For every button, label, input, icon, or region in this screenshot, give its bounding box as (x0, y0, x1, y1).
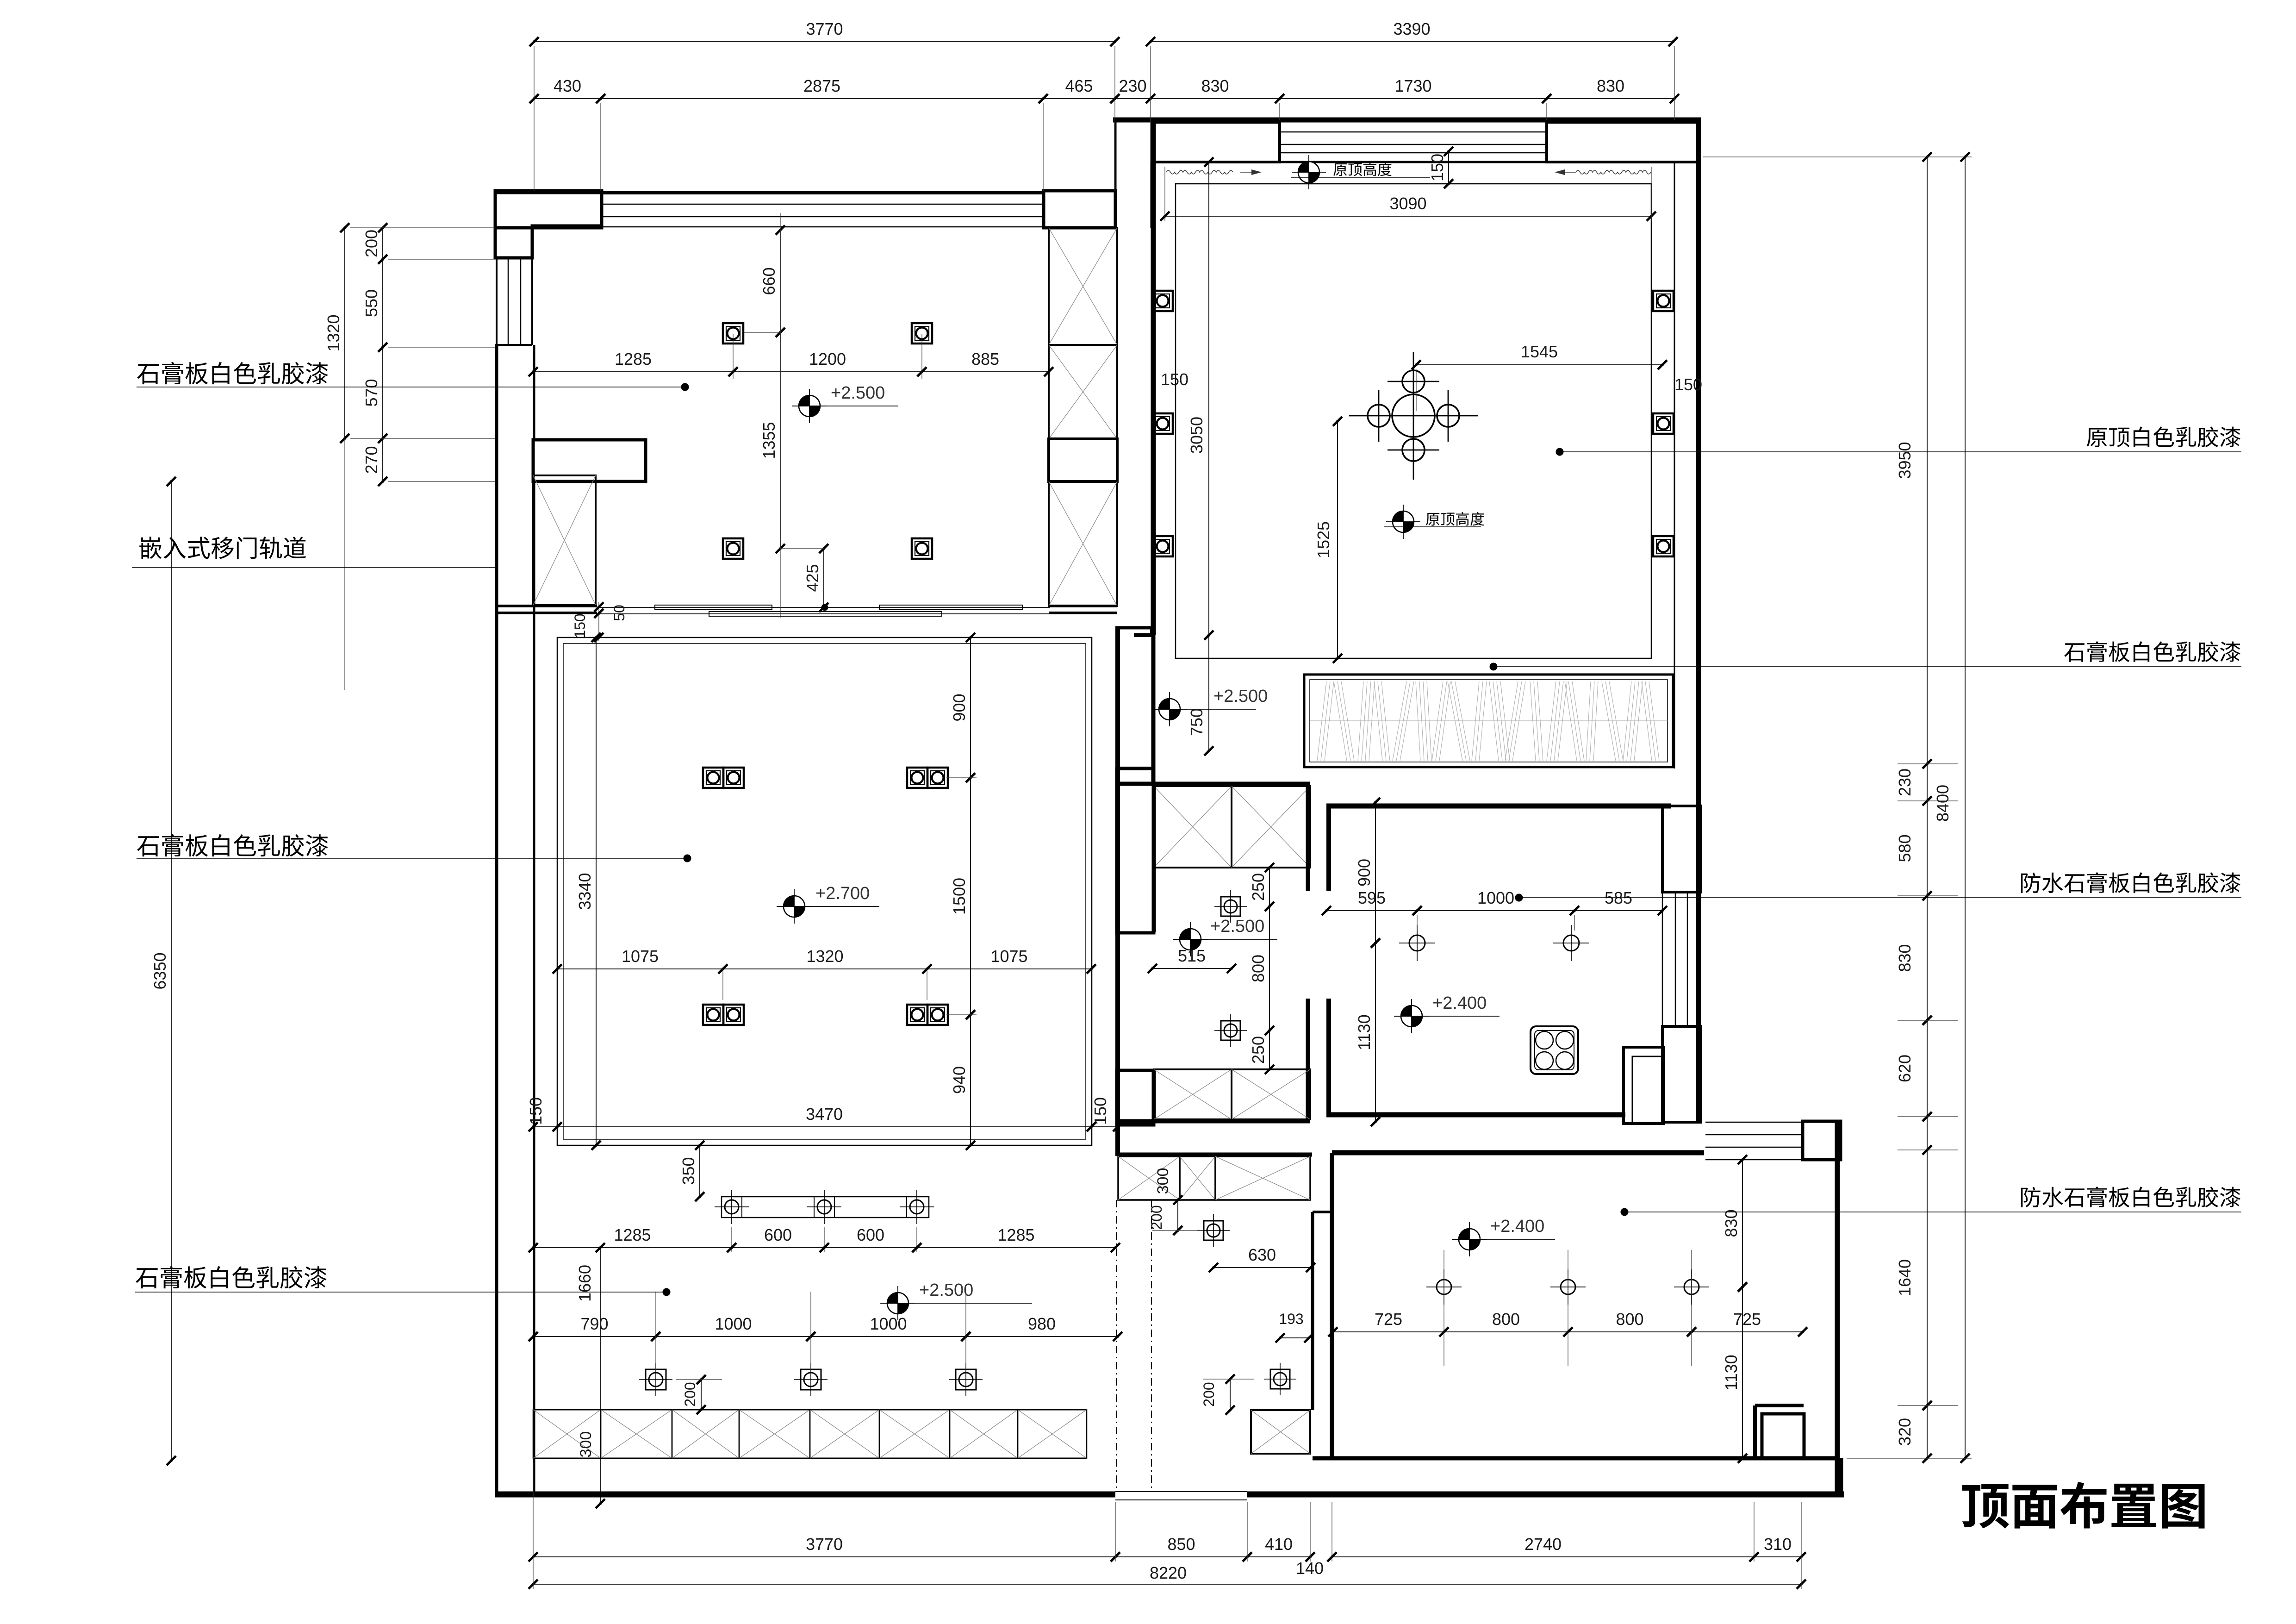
sliding door track baseline lower (597, 613, 1050, 614)
balcony lamp 3 (1684, 1280, 1699, 1294)
dimension 1545 chandelier (1416, 364, 1662, 365)
living/bath separating wall (1115, 628, 1120, 1156)
kitchen top wall (1326, 804, 1671, 809)
elevation +2.400 balcony (1459, 1229, 1480, 1250)
downlight top-right room right wall 2 (1653, 413, 1674, 434)
dimension 1000 bottom lights b (811, 1336, 966, 1337)
balcony lights extension (1444, 1250, 1444, 1366)
svg-text:+2.700: +2.700 (815, 884, 870, 903)
dimension 465 top row2 (1043, 98, 1115, 99)
double downlight living top-right (907, 768, 927, 788)
svg-text:+2.500: +2.500 (831, 383, 885, 403)
svg-text:515: 515 (1178, 946, 1206, 965)
dimension 900 kitchen (1375, 802, 1376, 943)
dimension 600 light bar a (732, 1247, 824, 1248)
svg-text:430: 430 (554, 76, 581, 95)
left outer wall outer line (495, 345, 498, 1497)
svg-text:50: 50 (611, 605, 628, 621)
bottom-right outer wall corner (1838, 1458, 1843, 1494)
dimension 1000 bottom lights a (656, 1336, 811, 1337)
dimension 3770 top row1 (534, 41, 1115, 42)
downlight top-right room left wall 1 (1152, 291, 1173, 311)
wall block right end of bedroom top wall (1044, 191, 1115, 228)
dimension 940 living (970, 1015, 971, 1145)
svg-text:900: 900 (1355, 859, 1374, 887)
svg-text:630: 630 (1248, 1245, 1276, 1264)
dimension 2875 top row2 (601, 98, 1043, 99)
label waterproof gypsum board white latex paint (kitchen) (2021, 873, 2041, 893)
dimension 570 left chain (382, 347, 383, 438)
wall block right of balcony window (1803, 1121, 1841, 1160)
interior wall stub (peninsula) on left wall (533, 440, 646, 481)
wardrobe hatch box 2 right of bedroom (1049, 345, 1117, 439)
svg-text:1130: 1130 (1722, 1355, 1741, 1390)
elevation +2.500 bedroom (799, 395, 820, 417)
wall band below right wardrobe (1049, 605, 1117, 607)
dimension 515 bath (1152, 968, 1232, 969)
dimension 1285 bedroom (533, 371, 733, 372)
dimension 250 bath top (1269, 868, 1270, 906)
downlight top-right room right wall 3 (1653, 536, 1674, 556)
dimension 3470 living (557, 1126, 1091, 1127)
living room ceiling border outer (557, 637, 1092, 1145)
svg-text:725: 725 (1375, 1310, 1402, 1329)
dimension 620 right chain (1927, 1020, 1928, 1117)
extension overshoot of 1320 line (344, 438, 345, 690)
window in left wall of bedroom (495, 257, 532, 259)
balcony lamp 2 (1561, 1280, 1575, 1294)
dimension 230 right chain (1927, 764, 1928, 801)
svg-text:1500: 1500 (950, 878, 969, 915)
dimension 1500 living (970, 778, 971, 1015)
dimension 885 bedroom (922, 371, 1049, 372)
wall column between bedroom and top-right room (230) (1114, 120, 1117, 228)
dimension 200 hall upper (1177, 1200, 1178, 1230)
double downlight living bottom-right (907, 1005, 927, 1025)
svg-text:200: 200 (362, 230, 381, 257)
svg-text:3090: 3090 (1389, 194, 1426, 213)
living bottom lamp 3 (956, 1369, 976, 1390)
inner face of right wall (1674, 162, 1675, 768)
svg-text:885: 885 (971, 350, 999, 369)
svg-text:140: 140 (1296, 1559, 1324, 1578)
svg-text:310: 310 (1764, 1535, 1792, 1554)
svg-text:150: 150 (1674, 375, 1702, 394)
svg-text:1000: 1000 (1477, 888, 1514, 907)
dimension 1320 living mid (723, 968, 927, 969)
bath top hatch box right (1232, 786, 1310, 868)
label gypsum board white latex paint (bedroom) (137, 364, 159, 384)
dimension 8220 bottom row2 (533, 1584, 1801, 1585)
bath top wall (1117, 782, 1310, 786)
closet with wood-grain hatch (1304, 675, 1673, 767)
dimension 200 hall lower (1230, 1379, 1231, 1410)
dimension 750 hallway (1208, 635, 1209, 751)
svg-text:300: 300 (577, 1431, 595, 1458)
title ceiling layout plan (1962, 1484, 2009, 1529)
kitchen left wall upper (1326, 804, 1331, 891)
downlight top-right room left wall 2 (1152, 413, 1173, 434)
svg-text:193: 193 (1279, 1311, 1303, 1327)
dimension 1200 bedroom (733, 371, 922, 372)
svg-text:1660: 1660 (575, 1265, 594, 1302)
dimension 850 bottom (1115, 1556, 1247, 1557)
svg-text:6350: 6350 (150, 952, 169, 989)
chandelier in top-right room (1392, 394, 1435, 437)
svg-text:660: 660 (759, 267, 778, 295)
light bar above living bottom (722, 1197, 929, 1218)
svg-text:850: 850 (1167, 1535, 1195, 1554)
sliding door track upper panel right (879, 605, 1022, 610)
svg-text:8400: 8400 (1933, 785, 1952, 822)
dimension 1640 right chain (1927, 1150, 1928, 1405)
original ceiling height marker center (1393, 511, 1414, 532)
kitchen east window (1662, 892, 1663, 1026)
gas hob symbol in kitchen (1531, 1026, 1578, 1074)
hall hatch box 3 (1215, 1156, 1310, 1200)
dimension 600 light bar b (824, 1247, 917, 1248)
dimension 410 bottom (1247, 1556, 1310, 1557)
dimension 800 balcony b (1568, 1331, 1692, 1332)
svg-text:425: 425 (803, 564, 822, 592)
svg-text:320: 320 (1895, 1418, 1914, 1446)
svg-text:3770: 3770 (806, 1535, 843, 1554)
svg-text:150: 150 (526, 1097, 545, 1125)
svg-text:150: 150 (1161, 370, 1188, 389)
svg-text:600: 600 (857, 1225, 884, 1244)
dimension 1075 living right (927, 968, 1091, 969)
elevation +2.500 bath (1180, 929, 1201, 950)
balcony right outer wall (1835, 1122, 1840, 1497)
hallway jog wall below top-right room (1134, 633, 1153, 637)
svg-text:940: 940 (950, 1066, 969, 1094)
left outer wall inner line (533, 345, 535, 440)
svg-text:3770: 3770 (806, 19, 843, 38)
hall top wall (1118, 1153, 1312, 1157)
svg-text:1075: 1075 (990, 947, 1027, 966)
svg-text:1130: 1130 (1355, 1014, 1374, 1050)
svg-text:595: 595 (1358, 888, 1386, 907)
downlight bedroom bottom-right (912, 538, 932, 559)
hall square lamp 1 (1204, 1221, 1223, 1240)
wall block below kitchen window (1662, 1026, 1701, 1122)
svg-text:570: 570 (362, 379, 381, 406)
living lights extension (722, 969, 723, 1000)
svg-text:1525: 1525 (1314, 521, 1333, 558)
ceiling border (gypsum) of top-right room (1176, 184, 1651, 658)
living room ceiling border inner (563, 643, 1086, 1139)
label waterproof gypsum board white latex paint (balcony) (2021, 1187, 2041, 1207)
svg-text:+2.500: +2.500 (1210, 917, 1264, 936)
node on track center line (821, 604, 828, 611)
svg-text:2875: 2875 (803, 76, 840, 95)
bath left wall upper (1152, 784, 1156, 932)
dimension 800 bath (1269, 906, 1270, 1031)
dimension 725 balcony right (1692, 1331, 1803, 1332)
svg-text:1640: 1640 (1895, 1259, 1914, 1296)
dimension 1525 chandelier (1337, 421, 1338, 658)
svg-text:1320: 1320 (324, 314, 343, 351)
balcony lamp 1 (1437, 1280, 1451, 1294)
hall hatch box bottom right (1251, 1410, 1310, 1454)
svg-text:+2.400: +2.400 (1490, 1217, 1544, 1236)
svg-text:410: 410 (1265, 1535, 1293, 1554)
svg-text:1285: 1285 (997, 1225, 1034, 1244)
kitchen bottom wall (1326, 1112, 1625, 1118)
svg-text:550: 550 (362, 289, 381, 317)
bath left wall lower (1152, 1069, 1156, 1123)
window on top-right room top wall (1280, 131, 1547, 133)
dimension 1730 top row2 (1280, 98, 1547, 99)
dimension 630 hall (1213, 1267, 1311, 1268)
balcony bottom inner wall (1313, 1456, 1840, 1461)
dimension 320 right chain (1927, 1405, 1928, 1458)
living/bath separating wall lower block (1117, 1070, 1154, 1125)
svg-text:230: 230 (1119, 76, 1146, 95)
svg-text:800: 800 (1249, 955, 1268, 982)
svg-text:350: 350 (679, 1157, 698, 1185)
bath downlight 1 (1221, 897, 1240, 916)
wall column cap at track level (1115, 626, 1153, 630)
dimension 310 bottom (1754, 1556, 1801, 1557)
dimension 200 left chain (382, 228, 383, 259)
sliding door track baseline upper (597, 607, 1050, 608)
svg-text:830: 830 (1722, 1209, 1741, 1237)
svg-text:230: 230 (1895, 768, 1914, 796)
wardrobe hatch box 1 right of bedroom (1049, 228, 1117, 345)
extension line 1545 (1416, 369, 1417, 411)
svg-text:1285: 1285 (615, 350, 652, 369)
svg-text:270: 270 (362, 446, 381, 474)
living/bath separating wall upper block (1117, 768, 1154, 933)
dimension 800 balcony a (1444, 1331, 1568, 1332)
balcony top wall (1332, 1150, 1704, 1156)
svg-text:800: 800 (1492, 1310, 1520, 1329)
top-right room top wall right block (1547, 122, 1699, 162)
dimension 830 top row2 right (1547, 98, 1674, 99)
dimension 1355 bedroom (780, 332, 781, 549)
bath right wall lower (1306, 999, 1310, 1123)
svg-text:3950: 3950 (1895, 442, 1914, 479)
bottom outer wall right part (1247, 1492, 1844, 1498)
living bottom lamp 2 (801, 1369, 821, 1390)
svg-text:150: 150 (572, 613, 588, 638)
dimension 3090 top-right room (1165, 216, 1651, 217)
wardrobe hatch box left of bedroom (below peninsula) (533, 475, 596, 605)
double downlight living top-left (703, 768, 723, 788)
dimension 230 top row2 (1115, 98, 1151, 99)
top-right room top wall left block (1153, 122, 1280, 162)
window band on bedroom top wall (602, 191, 1044, 194)
hall square lamp 2 (1270, 1369, 1290, 1389)
svg-text:2740: 2740 (1524, 1535, 1562, 1554)
dimension 580 right chain (1927, 801, 1928, 896)
dimension 1660 left living (600, 1248, 601, 1504)
extension lines left dims (350, 227, 495, 228)
elevation +2.500 living south (887, 1293, 908, 1314)
dimension 3950 right chain (1927, 157, 1928, 764)
svg-text:1075: 1075 (622, 947, 659, 966)
dimension 1075 living left (557, 968, 723, 969)
dimension 3340 living (596, 637, 597, 1145)
downlight top-right room left wall 3 (1152, 536, 1173, 556)
dimension 900 living (970, 637, 971, 778)
dimension 725 balcony left (1333, 1331, 1444, 1332)
dimension 430 top row2 (534, 98, 601, 99)
kitchen left wall lower (1326, 999, 1331, 1115)
dimension 350 below ceiling (699, 1145, 700, 1197)
svg-text:+2.500: +2.500 (919, 1280, 973, 1300)
svg-text:800: 800 (1616, 1310, 1643, 1329)
bottom door opening sill lines (1115, 1491, 1247, 1492)
sliding door track upper panel left (655, 605, 772, 610)
svg-text:+2.500: +2.500 (1213, 687, 1268, 706)
dimension 830 right chain (1927, 896, 1928, 1020)
top-right room inner top wall face (1151, 161, 1701, 163)
bath bottom hatch box left (1154, 1069, 1232, 1119)
kitchen bottom-right step block (1624, 1047, 1664, 1124)
wall block top-left corner of bedroom (495, 191, 602, 228)
svg-text:580: 580 (1895, 834, 1914, 862)
extension lines right chain (1703, 156, 1972, 157)
downlight bedroom top-right (912, 323, 932, 344)
balcony bottom-right box (1762, 1414, 1804, 1458)
dimension 1320 left (344, 228, 345, 438)
svg-text:200: 200 (1148, 1205, 1165, 1230)
dimension 150 living left (533, 1126, 557, 1127)
dimension 140 bottom ticks and label (1306, 1552, 1315, 1562)
kitchen ceiling lamp 2 (1563, 935, 1579, 951)
hall hatch box 2 (1180, 1156, 1215, 1200)
wavy line left (original ceiling) (1166, 170, 1233, 174)
elevation +2.500 hallway (1159, 699, 1180, 720)
kitchen bottom-right step inner (1632, 1056, 1662, 1123)
wall block in wardrobe column (1049, 439, 1117, 481)
dimension 830 balcony (1742, 1160, 1743, 1287)
svg-text:750: 750 (1187, 708, 1206, 736)
dimension 1285 light bar left (533, 1247, 732, 1248)
balcony left wall jog (1313, 1211, 1332, 1213)
dimension 8400 right (1965, 157, 1966, 1458)
extension lines bottom dims (533, 1463, 534, 1589)
balcony top window (1705, 1122, 1803, 1123)
svg-text:3470: 3470 (806, 1105, 843, 1124)
balcony left wall inner line (1311, 1212, 1314, 1410)
dimension right chain unlabeled (1927, 1117, 1928, 1150)
dimension 660 bedroom (780, 230, 781, 332)
bath bottom hatch box right (1232, 1069, 1310, 1119)
elevation +2.400 kitchen (1401, 1006, 1422, 1027)
bedroom bottom wall left segment (double line) (495, 605, 597, 607)
dimension 550 left chain (382, 259, 383, 347)
bath downlight 2 (1221, 1021, 1240, 1040)
top-right room left wall (1151, 120, 1156, 635)
svg-text:200: 200 (682, 1382, 698, 1406)
svg-text:200: 200 (1201, 1382, 1217, 1406)
svg-text:790: 790 (580, 1314, 608, 1333)
sliding door track lower panel (709, 612, 942, 616)
original ceiling height marker top (1298, 162, 1319, 183)
bedroom center extension line (780, 213, 781, 618)
track dimension ticks 50/150 (598, 602, 599, 641)
label gypsum board white latex paint (living south) (136, 1268, 157, 1288)
dimension 3770 bottom (533, 1556, 1115, 1557)
balcony bottom-right step (1755, 1404, 1804, 1407)
svg-text:830: 830 (1895, 944, 1914, 972)
wavy line right (original ceiling) (1576, 170, 1651, 174)
svg-text:250: 250 (1249, 1036, 1268, 1064)
wall block above kitchen window (1662, 806, 1701, 892)
dimension 1000 kitchen (1417, 910, 1574, 911)
svg-text:1000: 1000 (715, 1314, 752, 1333)
dimension 790 bottom lights (533, 1336, 656, 1337)
svg-text:150: 150 (1091, 1097, 1110, 1125)
label gypsum board white latex paint (closet side) (2064, 643, 2084, 662)
bath top hatch box left (1154, 786, 1232, 868)
svg-text:1355: 1355 (759, 422, 778, 459)
bath right wall upper (1306, 784, 1310, 891)
svg-text:250: 250 (1249, 873, 1268, 901)
svg-text:1200: 1200 (809, 350, 846, 369)
svg-text:8220: 8220 (1150, 1563, 1187, 1582)
dimension 1285 light bar right (917, 1247, 1115, 1248)
dimension 585 kitchen (1574, 910, 1662, 911)
label recessed sliding door track (139, 537, 162, 559)
elevation +2.700 living (784, 896, 805, 917)
dimension 193 hall (1280, 1337, 1309, 1338)
bath bottom wall (1117, 1119, 1310, 1124)
dimension 3050 top-right room (1208, 162, 1209, 635)
double downlight living bottom-left (703, 1005, 723, 1025)
kitchen light extension (1417, 915, 1418, 931)
living bottom lamp 1 (646, 1369, 666, 1390)
svg-text:3050: 3050 (1187, 417, 1206, 454)
door centerline dashed right (1151, 1200, 1152, 1492)
svg-text:980: 980 (1028, 1314, 1056, 1333)
svg-text:465: 465 (1065, 76, 1093, 95)
svg-text:725: 725 (1733, 1310, 1761, 1329)
kitchen ceiling lamp 1 (1409, 935, 1425, 951)
svg-text:3390: 3390 (1393, 19, 1430, 38)
svg-text:300: 300 (1154, 1168, 1172, 1194)
dimension 595 kitchen (1326, 910, 1417, 911)
svg-text:830: 830 (1597, 76, 1624, 95)
svg-text:1320: 1320 (806, 947, 843, 966)
svg-text:+2.400: +2.400 (1432, 993, 1487, 1013)
downlight top-right room right wall 1 (1653, 291, 1674, 311)
door centerline dashed left (1116, 1200, 1117, 1492)
dimension 830 top row2 left (1151, 98, 1280, 99)
svg-text:3340: 3340 (575, 873, 594, 910)
svg-text:1545: 1545 (1521, 342, 1558, 361)
wardrobe hatch box 3 right of bedroom (1049, 481, 1117, 606)
dimension 150 right of window (1448, 151, 1449, 184)
dimension 2740 bottom (1332, 1556, 1754, 1557)
dimension 1130 kitchen (1375, 943, 1376, 1122)
downlight bedroom top-left (723, 323, 743, 344)
bottom lights extension (655, 1292, 656, 1370)
dimension 1130 balcony (1742, 1287, 1743, 1458)
dimension 3390 top row1 (1151, 41, 1673, 42)
svg-text:150: 150 (1428, 154, 1447, 181)
dimension 6350 left (171, 481, 172, 1461)
extension lines 3090 (1164, 167, 1165, 221)
top-left corner wall block (L-shape) (495, 193, 602, 258)
dimension 200 bottom lights (701, 1380, 702, 1410)
extension lines top dims (534, 46, 535, 191)
svg-text:1000: 1000 (870, 1314, 907, 1333)
dimension 425 bedroom (823, 549, 824, 607)
